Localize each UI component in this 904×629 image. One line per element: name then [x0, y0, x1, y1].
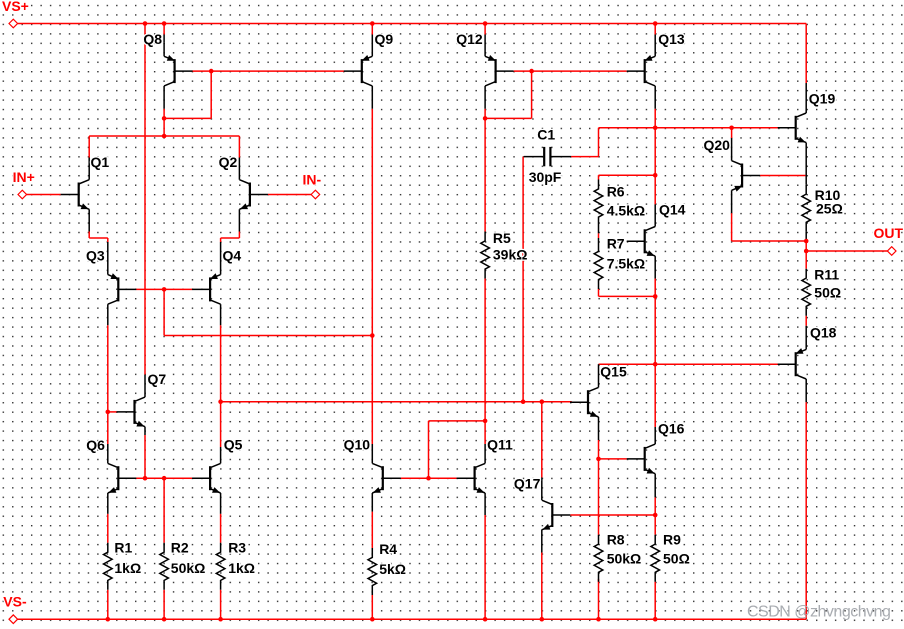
svg-text:R4: R4 — [379, 541, 397, 557]
svg-text:4.5kΩ: 4.5kΩ — [607, 202, 645, 218]
svg-text:Q3: Q3 — [86, 247, 105, 263]
svg-text:Q12: Q12 — [456, 31, 483, 47]
svg-text:50Ω: 50Ω — [663, 550, 690, 566]
svg-text:Q2: Q2 — [219, 154, 238, 170]
svg-text:IN-: IN- — [303, 171, 322, 187]
svg-text:R2: R2 — [171, 539, 189, 555]
svg-text:C1: C1 — [537, 126, 555, 142]
svg-text:Q16: Q16 — [658, 420, 685, 436]
svg-text:25Ω: 25Ω — [816, 201, 843, 217]
svg-text:CSDN @zhvngchvng: CSDN @zhvngchvng — [747, 604, 890, 621]
svg-text:Q17: Q17 — [514, 476, 541, 492]
svg-text:Q4: Q4 — [223, 247, 242, 263]
svg-text:OUT: OUT — [874, 225, 904, 241]
svg-text:Q13: Q13 — [658, 31, 685, 47]
svg-text:Q7: Q7 — [148, 371, 167, 387]
svg-text:5kΩ: 5kΩ — [379, 561, 406, 577]
svg-text:Q14: Q14 — [659, 201, 686, 217]
svg-text:IN+: IN+ — [13, 169, 35, 185]
svg-text:R3: R3 — [228, 539, 246, 555]
svg-text:50kΩ: 50kΩ — [607, 550, 642, 566]
svg-text:R9: R9 — [663, 531, 681, 547]
svg-text:Q9: Q9 — [375, 31, 394, 47]
svg-text:Q20: Q20 — [704, 137, 731, 153]
svg-text:Q5: Q5 — [224, 437, 243, 453]
svg-text:Q19: Q19 — [809, 90, 836, 106]
svg-text:1kΩ: 1kΩ — [114, 560, 141, 576]
svg-text:Q1: Q1 — [91, 154, 110, 170]
svg-text:1kΩ: 1kΩ — [228, 560, 255, 576]
svg-text:R8: R8 — [607, 531, 625, 547]
svg-text:50kΩ: 50kΩ — [171, 560, 206, 576]
svg-text:R5: R5 — [493, 230, 511, 246]
svg-text:Q10: Q10 — [344, 437, 371, 453]
svg-text:50Ω: 50Ω — [814, 285, 841, 301]
svg-text:Q18: Q18 — [810, 324, 837, 340]
svg-text:VS-: VS- — [3, 593, 27, 609]
svg-text:Q8: Q8 — [143, 31, 162, 47]
svg-text:Q15: Q15 — [600, 364, 627, 380]
svg-text:R6: R6 — [607, 183, 625, 199]
svg-text:39kΩ: 39kΩ — [493, 247, 528, 263]
svg-text:7.5kΩ: 7.5kΩ — [607, 255, 645, 271]
svg-text:R7: R7 — [607, 236, 625, 252]
svg-text:R11: R11 — [814, 267, 839, 283]
svg-text:R1: R1 — [114, 539, 132, 555]
svg-text:30pF: 30pF — [529, 169, 562, 185]
svg-text:VS+: VS+ — [2, 0, 29, 14]
svg-text:Q11: Q11 — [487, 437, 513, 453]
svg-text:Q6: Q6 — [86, 437, 105, 453]
